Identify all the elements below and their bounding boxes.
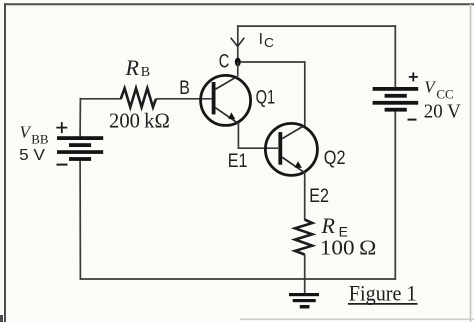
wire right vertical lower [394,111,396,279]
wire left vertical upper [79,98,81,137]
svg-text:R: R [321,213,336,238]
wire bottom rail [80,278,397,280]
svg-text:B: B [141,65,150,80]
svg-text:100 Ω: 100 Ω [320,236,377,260]
svg-text:E1: E1 [228,151,248,172]
border frame bottom [240,318,474,320]
wire top rail [237,25,396,27]
wire B horizontal right [156,98,212,100]
svg-text:I: I [259,31,263,48]
resistor R_E [295,220,312,255]
svg-text:CC: CC [436,87,453,102]
wire R_E to ground [304,254,306,293]
wire B horizontal left [80,98,121,100]
wire Q2 emitter down to R_E [304,172,306,220]
svg-text:200 kΩ: 200 kΩ [109,109,170,133]
battery V_CC plus [409,72,418,81]
svg-text:5 V: 5 V [19,147,45,164]
ground [289,293,319,309]
wire node C to Q1 collector entry [237,62,239,76]
svg-text:E2: E2 [309,186,329,207]
svg-text:C: C [219,52,230,73]
resistor R_B [121,88,156,107]
battery V_CC minus [408,119,417,121]
svg-text:B: B [179,78,190,99]
svg-text:C: C [264,36,274,50]
svg-text:R: R [125,55,140,80]
transistor Q1 [201,75,251,125]
transistor Q2 [265,123,317,175]
svg-text:20 V: 20 V [424,101,462,123]
scan artifact bottom-left [0,315,3,322]
battery V_CC [373,87,419,112]
border frame left [4,3,6,322]
node C junction dot [235,58,241,67]
caption underline [348,303,418,305]
wire left vertical lower [79,161,81,280]
svg-text:Q2: Q2 [324,148,346,169]
wire right vertical upper [394,25,396,87]
svg-text:BB: BB [31,132,49,147]
wire Q1 emitter to E1 corner to Q2 base [238,123,278,148]
current arrow I_C chevron [231,38,245,47]
wire collector drop from rail to node C [237,25,239,62]
svg-text:Q1: Q1 [256,88,276,109]
border frame right [470,4,472,322]
border frame top [4,3,474,5]
battery V_BB plus [56,122,67,133]
battery V_BB [57,136,103,161]
svg-text:Figure 1: Figure 1 [349,281,417,306]
wire node C to Q2 collector [240,62,305,126]
battery V_BB minus [57,164,68,166]
